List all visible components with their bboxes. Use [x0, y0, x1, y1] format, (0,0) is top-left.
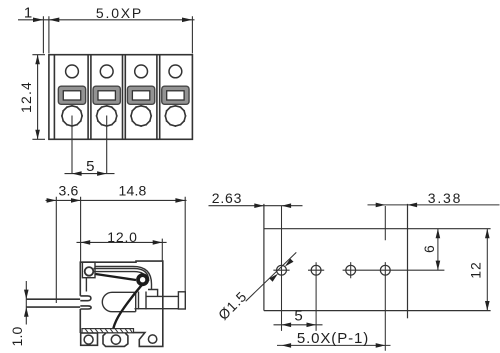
svg-text:1.0: 1.0 [9, 326, 25, 346]
svg-text:5: 5 [294, 308, 303, 325]
svg-text:6: 6 [421, 245, 437, 253]
svg-text:3.6: 3.6 [58, 183, 78, 199]
svg-text:1: 1 [24, 4, 32, 21]
svg-text:12: 12 [468, 261, 484, 279]
svg-text:2.63: 2.63 [212, 190, 242, 206]
svg-text:5.0X(P-1): 5.0X(P-1) [297, 330, 369, 347]
svg-text:14.8: 14.8 [118, 183, 146, 199]
svg-text:3.38: 3.38 [428, 190, 462, 206]
svg-text:5.0XP: 5.0XP [96, 5, 143, 21]
svg-text:5: 5 [86, 158, 94, 175]
svg-text:12.0: 12.0 [107, 229, 137, 245]
svg-text:12.4: 12.4 [18, 81, 34, 113]
svg-text:Ø1.5: Ø1.5 [215, 288, 250, 323]
